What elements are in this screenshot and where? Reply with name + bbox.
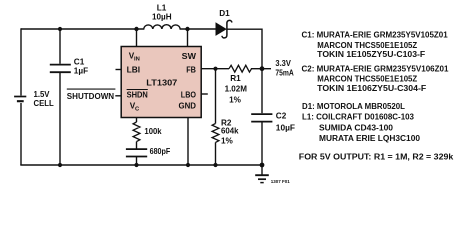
label 100k xyxy=(144,127,162,136)
svg-text:10µF: 10µF xyxy=(276,124,295,133)
wire: left vertical from top rail to battery xyxy=(20,28,22,95)
label parts list line MURATA ERIE xyxy=(319,134,421,143)
wire: LBO stub xyxy=(201,93,208,95)
node: junction bottom rail / C2 / ground xyxy=(260,163,265,168)
label SHUTDOWN with overline xyxy=(67,89,116,101)
label parts list line L1 xyxy=(302,113,415,122)
svg-text:GND: GND xyxy=(179,101,197,110)
wire: top rail left segment xyxy=(21,28,137,30)
label parts list line C2 TOKIN xyxy=(317,84,426,93)
wire: VC pin down from IC xyxy=(136,118,138,123)
svg-text:1%: 1% xyxy=(221,136,234,145)
node: junction bottom rail / 680pF xyxy=(134,163,138,167)
svg-text:L1: COILCRAFT D01608C-103: L1: COILCRAFT D01608C-103 xyxy=(302,113,415,122)
wire: top rail from SW node to D1 anode xyxy=(188,28,217,30)
label note FOR 5V OUTPUT xyxy=(299,152,454,161)
inductor L1 10uH xyxy=(137,25,188,29)
wire: R2 bottom xyxy=(215,142,217,165)
label R1 1.02M 1% xyxy=(225,74,248,104)
svg-text:1.02M: 1.02M xyxy=(225,85,248,94)
pin label VC xyxy=(130,102,140,113)
label parts list line C1 xyxy=(302,31,449,40)
label 3.3V 75mA xyxy=(275,59,293,77)
pin label LBI xyxy=(127,65,141,74)
svg-text:SUMIDA CD43-100: SUMIDA CD43-100 xyxy=(319,123,394,132)
label parts list line C1 TOKIN xyxy=(317,50,425,59)
svg-text:D1: D1 xyxy=(219,9,230,18)
svg-text:R1: R1 xyxy=(230,74,241,83)
pin label GND xyxy=(179,101,197,110)
node: junction top rail / C1 xyxy=(58,27,62,31)
node: junction FB wire / R2 xyxy=(213,67,217,71)
op-amp U1 LT1307 body xyxy=(121,47,201,118)
label R2 604k 1% xyxy=(221,118,239,145)
svg-text:TOKIN 1E106ZY5U-C304-F: TOKIN 1E106ZY5U-C304-F xyxy=(317,84,426,93)
wire: GND pin down from IC to rail xyxy=(187,118,189,166)
label C1 1uF xyxy=(74,58,88,76)
svg-text:75mA: 75mA xyxy=(275,68,293,77)
label parts list line SUMIDA xyxy=(319,123,394,132)
wire: SW drop from L1 right to IC top xyxy=(187,29,189,47)
wire: output down to C2 xyxy=(261,69,263,114)
wire: R2 top xyxy=(215,69,217,124)
capacitor 680pF xyxy=(126,149,147,156)
node: junction bottom rail / GND xyxy=(186,163,190,167)
svg-text:1307 F01: 1307 F01 xyxy=(271,179,291,184)
svg-text:LBO: LBO xyxy=(181,90,197,99)
svg-text:FOR 5V OUTPUT: R1 = 1M, R2 = 3: FOR 5V OUTPUT: R1 = 1M, R2 = 329k xyxy=(299,152,454,161)
wire: C1 bottom branch xyxy=(59,73,61,165)
capacitor C2 10uF xyxy=(251,114,272,122)
svg-text:3.3V: 3.3V xyxy=(275,59,291,68)
label 680pF xyxy=(150,147,171,156)
pin label SHDN with overline xyxy=(127,90,148,100)
svg-text:D1: MOTOROLA MBR0520L: D1: MOTOROLA MBR0520L xyxy=(302,102,405,111)
label parts list line C1 MARCON xyxy=(317,41,417,50)
svg-text:MARCON THCS50E1E105Z: MARCON THCS50E1E105Z xyxy=(317,75,417,84)
pin label VIN xyxy=(129,52,140,63)
wire: VIN drop from L1 left to IC top xyxy=(136,29,138,47)
label parts list line C2 xyxy=(302,65,450,74)
svg-text:680pF: 680pF xyxy=(150,147,171,156)
battery BT1 1.5V cell xyxy=(14,97,26,102)
svg-text:SW: SW xyxy=(182,52,197,61)
pin label FB xyxy=(186,65,196,74)
label 1.5V CELL xyxy=(34,90,54,108)
wire: bottom rail xyxy=(20,164,262,166)
resistor R2 604k (vertical zigzag) xyxy=(212,124,219,143)
label parts list line D1 xyxy=(302,102,405,111)
node: junction top rail / L1 right / SW xyxy=(185,27,189,31)
pin label LBO xyxy=(181,90,197,99)
label LT1307 xyxy=(146,79,177,88)
label 1307 F01 xyxy=(271,179,291,184)
wire: C1 top branch xyxy=(59,29,61,64)
svg-text:1µF: 1µF xyxy=(74,66,88,75)
svg-text:L1: L1 xyxy=(157,4,167,13)
svg-text:C1: C1 xyxy=(74,58,85,67)
node: junction output / R1 with stub xyxy=(260,66,271,71)
svg-text:C2: MURATA-ERIE GRM235Y5V106Z0: C2: MURATA-ERIE GRM235Y5V106Z01 xyxy=(302,65,450,74)
svg-text:CELL: CELL xyxy=(34,99,54,108)
resistor 100k (vertical zigzag) xyxy=(133,122,140,142)
resistor R1 1.02M (horizontal zigzag) xyxy=(229,65,252,72)
svg-text:FB: FB xyxy=(186,65,196,74)
wire: R1 to output node xyxy=(251,68,262,70)
wire: SHDN stub xyxy=(115,95,121,97)
label L1 10uH xyxy=(152,4,172,22)
node: junction bottom rail / R2 xyxy=(213,163,217,167)
ground xyxy=(255,165,269,183)
label parts list line C2 MARCON xyxy=(317,75,417,84)
node: junction bottom rail / C1 xyxy=(58,163,62,167)
pin label SW xyxy=(182,52,197,61)
wire: D1 cathode to output corner and down xyxy=(227,29,262,68)
svg-text:MARCON THCS50E1E105Z: MARCON THCS50E1E105Z xyxy=(317,41,417,50)
svg-text:1.5V: 1.5V xyxy=(34,90,51,99)
svg-text:C2: C2 xyxy=(276,112,287,121)
wire: left vertical from battery to bottom rail xyxy=(20,103,22,165)
svg-text:LT1307: LT1307 xyxy=(146,79,177,88)
label D1 xyxy=(219,9,230,18)
svg-text:LBI: LBI xyxy=(127,65,141,74)
svg-text:SHUTDOWN: SHUTDOWN xyxy=(67,92,114,101)
diode D1 (Schottky) xyxy=(216,20,232,38)
wire: FB to R1 xyxy=(201,68,229,70)
svg-text:TOKIN 1E105ZY5U-C103-F: TOKIN 1E105ZY5U-C103-F xyxy=(317,50,425,59)
svg-text:10µH: 10µH xyxy=(152,12,172,21)
wire: LBI stub xyxy=(116,69,122,71)
svg-text:1%: 1% xyxy=(229,96,242,105)
svg-text:MURATA ERIE LQH3C100: MURATA ERIE LQH3C100 xyxy=(319,134,421,143)
svg-text:IN: IN xyxy=(134,56,140,62)
svg-text:C1: MURATA-ERIE GRM235Y5V105Z0: C1: MURATA-ERIE GRM235Y5V105Z01 xyxy=(302,31,449,40)
svg-text:SHDN: SHDN xyxy=(127,90,148,99)
wire: 100k to 680pF xyxy=(136,142,138,149)
svg-text:604k: 604k xyxy=(221,127,239,136)
wire: C2 bottom to rail xyxy=(261,122,263,165)
capacitor C1 1uF xyxy=(50,65,71,73)
node: junction top rail / L1 left xyxy=(134,27,138,31)
wire: 680pF to bottom rail xyxy=(136,157,138,165)
label C2 10uF xyxy=(276,112,295,133)
svg-text:100k: 100k xyxy=(144,127,162,136)
